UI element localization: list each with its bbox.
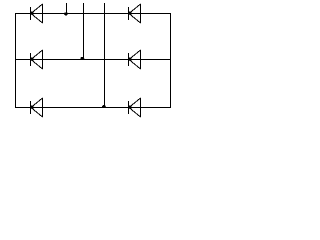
wire: phase input C (vertical) (104, 3, 106, 108)
wire: right DC rail (170, 13, 172, 108)
diode bottom-left (30, 98, 43, 117)
wire: phase input B (vertical) (83, 3, 85, 60)
wire: middle phase bus (15, 59, 171, 61)
wire: phase input A (vertical) (66, 3, 68, 14)
node: phase C junction dot (102, 105, 106, 108)
diode middle-left (30, 50, 43, 69)
wire: bottom phase bus (15, 107, 171, 109)
diode top-right (128, 4, 141, 23)
node: phase A junction dot (64, 12, 68, 15)
wire: left DC rail (15, 13, 17, 108)
diode top-left (30, 4, 43, 23)
diode bottom-right (128, 98, 141, 117)
node: phase B junction dot (81, 57, 85, 60)
wire: top phase bus (15, 13, 171, 15)
diode middle-right (128, 50, 141, 69)
